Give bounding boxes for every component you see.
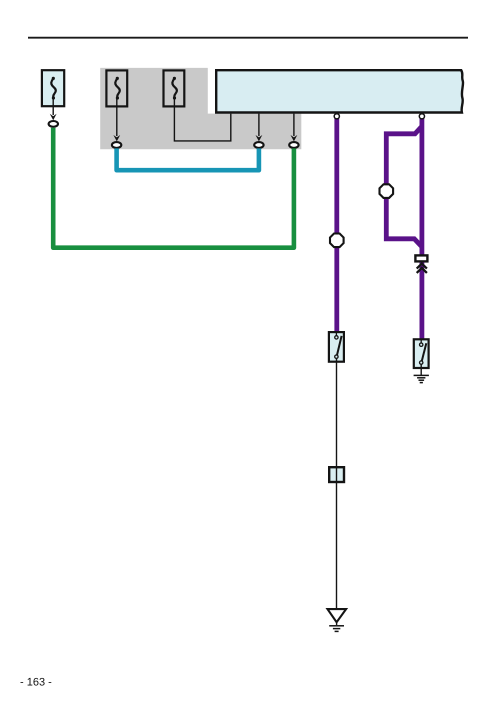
pin circle P2 on ECU — [419, 114, 424, 119]
pin circle P1 on ECU — [334, 114, 339, 119]
ECU box U1 — [216, 70, 463, 112]
shield bar connector B1 — [415, 255, 427, 261]
wire purple ECU to shield bar — [419, 116, 424, 255]
wire F1 to connector A1 (arrow) — [50, 98, 57, 120]
connector J1 (octagon) — [330, 234, 344, 248]
wire purple bar to switch SW2 — [419, 263, 424, 341]
header rule — [28, 37, 468, 39]
connector A3 — [254, 142, 263, 148]
arrow chevrons into bar — [417, 264, 427, 273]
connector A4 — [289, 142, 298, 148]
fuse F3 — [164, 70, 185, 106]
wire purple ECU to switch SW1 — [334, 116, 339, 333]
wire SW1 to ground G1 — [336, 359, 338, 610]
svg-text:- 163 -: - 163 - — [20, 677, 52, 689]
connector J2 (octagon) — [380, 184, 394, 198]
ground G2 (bars) — [414, 365, 429, 383]
wire teal A2 to A3 — [117, 148, 259, 170]
ground G1 (triangle) — [328, 609, 347, 631]
connector A1 — [49, 121, 58, 127]
wire F2 to connector A2 (arrow) — [113, 98, 120, 141]
junction block (gray shaded area) — [100, 68, 301, 149]
wire ECU to connector A4 (arrow) — [291, 114, 298, 142]
wire F3 to ECU box — [174, 98, 230, 141]
wire ECU to connector A3 (arrow) — [256, 114, 263, 142]
wire purple branch loop — [386, 126, 422, 247]
switch SW2 — [414, 339, 429, 368]
wire green A1 to A4 — [53, 128, 294, 248]
connector A2 — [112, 142, 121, 148]
fuse F1 — [42, 70, 64, 106]
inline connector C1 (square) — [329, 466, 344, 483]
switch SW1 — [329, 332, 344, 362]
fuse F2 — [106, 70, 127, 106]
